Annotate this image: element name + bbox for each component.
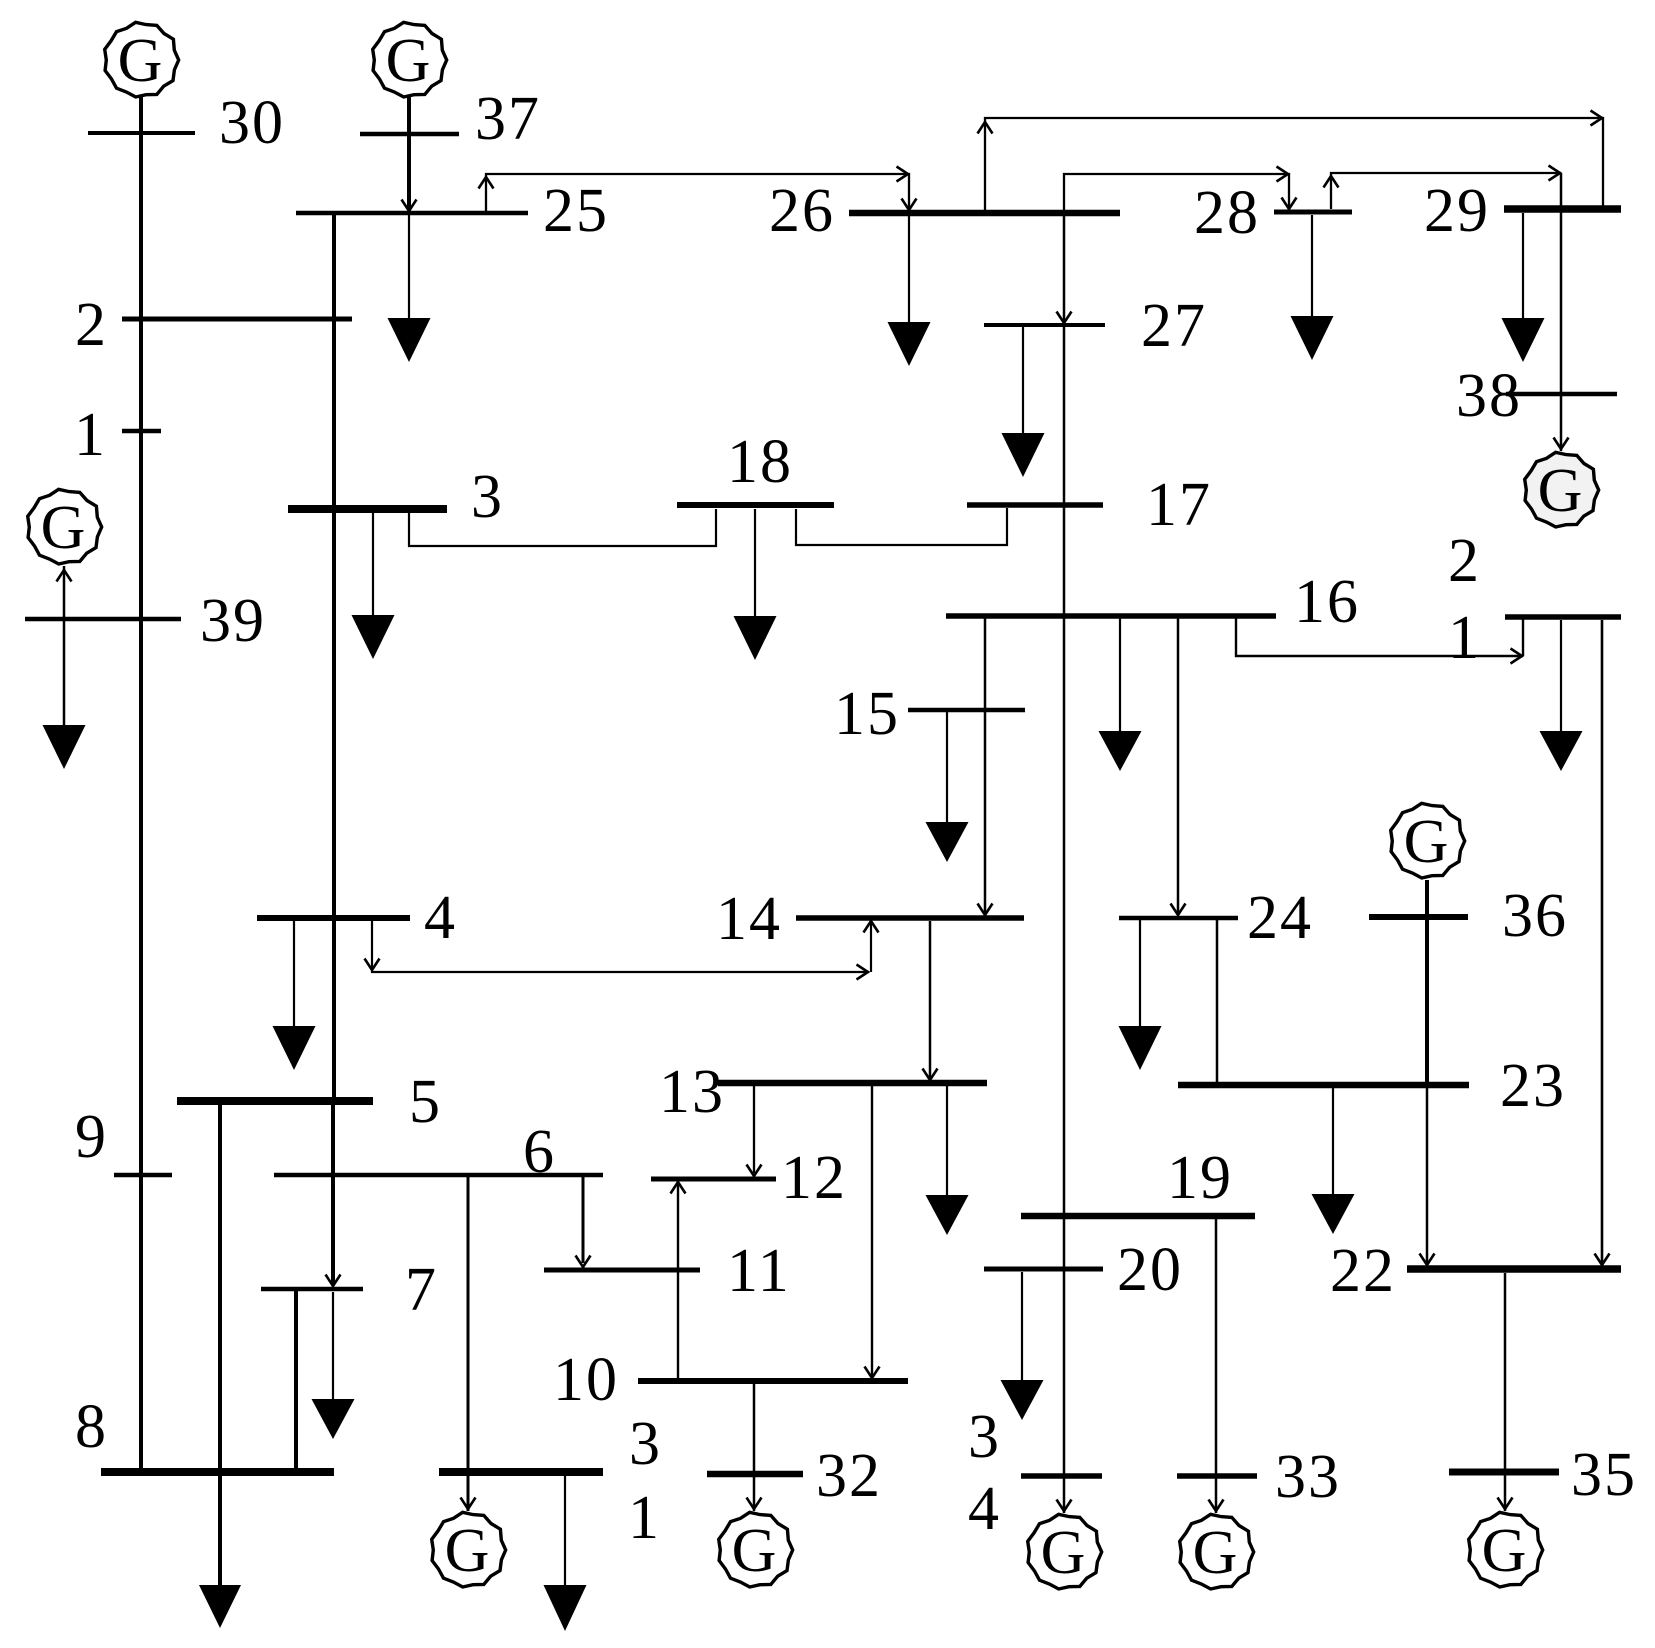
load arrow bus 3 bbox=[352, 615, 395, 659]
svg-text:3: 3 bbox=[471, 463, 504, 531]
arrowhead down into G38 bbox=[1554, 438, 1569, 450]
wire: line 4-14 bbox=[372, 921, 869, 972]
arrowhead down at bus 13 bbox=[923, 1069, 938, 1081]
svg-text:G: G bbox=[41, 494, 88, 562]
bus 9 bbox=[114, 1173, 172, 1178]
svg-text:3: 3 bbox=[968, 1403, 1001, 1471]
bus 34 bbox=[1021, 1473, 1102, 1479]
svg-text:G: G bbox=[732, 1517, 779, 1585]
load arrow bus 7 bbox=[312, 1399, 355, 1439]
svg-text:7: 7 bbox=[405, 1256, 438, 1324]
wire: line 28-29 bbox=[1331, 173, 1561, 209]
generator G at bus 39 bbox=[28, 489, 102, 564]
wire: 26-27-17-16-19-20-34 vertical bbox=[1063, 216, 1066, 1513]
wire: line 18-17 bbox=[796, 508, 1007, 545]
bus 18 bbox=[677, 502, 834, 508]
wire: line 26-29 bbox=[985, 118, 1603, 211]
bus 28 bbox=[1274, 210, 1352, 215]
arrowhead down at bus 25 bbox=[402, 200, 417, 212]
load arrow bus 24 bbox=[1119, 1026, 1162, 1070]
arrowhead down at bus 28 bbox=[1282, 198, 1297, 210]
bus 31 bbox=[439, 1468, 603, 1476]
svg-text:G: G bbox=[1482, 1517, 1529, 1585]
wire: 5-6-7 vertical bbox=[331, 1104, 335, 1284]
bus 25 bbox=[296, 211, 528, 216]
wire: load stem bus 23 bbox=[1332, 1088, 1334, 1194]
wire: load stem bus 16 bbox=[1119, 618, 1121, 731]
bus 20 bbox=[984, 1267, 1103, 1272]
load arrow bus 25 bbox=[388, 318, 431, 362]
bus 24 bbox=[1119, 916, 1238, 921]
wire: line 21-22 bbox=[1601, 620, 1604, 1265]
svg-text:18: 18 bbox=[727, 428, 793, 496]
wire: load stem bus 24 bbox=[1139, 920, 1141, 1026]
arrowhead right on 25-26 bbox=[897, 167, 909, 182]
load arrow bus 27 bbox=[1002, 433, 1045, 477]
wire: load stem bus 27 bbox=[1022, 327, 1024, 433]
arrowhead down at bus 12 bbox=[747, 1165, 762, 1177]
generator G at bus 34 bbox=[1028, 1514, 1102, 1589]
bus 33 bbox=[1177, 1473, 1257, 1479]
wire: line 7-8 bbox=[294, 1291, 298, 1469]
bus 2 bbox=[122, 317, 352, 322]
svg-text:G: G bbox=[386, 27, 433, 95]
wire: load stem bus 4 bbox=[293, 921, 295, 1026]
arrowhead down at bus 27 bbox=[1057, 312, 1072, 324]
arrowhead down into G32 bbox=[747, 1498, 762, 1510]
bus 38 bbox=[1506, 392, 1617, 397]
svg-text:23: 23 bbox=[1500, 1052, 1566, 1120]
bus 1 bbox=[122, 429, 161, 434]
svg-text:17: 17 bbox=[1146, 471, 1212, 539]
wire: load stem bus 18 bbox=[754, 509, 756, 616]
bus 16 bbox=[946, 613, 1276, 619]
bus 35 bbox=[1449, 1469, 1559, 1476]
bus 7 bbox=[261, 1287, 363, 1292]
bus 21 bbox=[1505, 614, 1621, 620]
bus 13 bbox=[718, 1080, 987, 1087]
arrowhead down at bus 22 right bbox=[1595, 1254, 1610, 1266]
arrowhead down into G31 bbox=[461, 1498, 476, 1510]
wire: line 25-26 bbox=[486, 174, 909, 211]
generator G at bus 30 bbox=[105, 22, 179, 97]
wire: 22-35-G35 vertical bbox=[1504, 1273, 1507, 1511]
arrowhead down at bus 26 bbox=[902, 199, 917, 211]
svg-text:38: 38 bbox=[1456, 362, 1522, 430]
svg-text:32: 32 bbox=[816, 1442, 882, 1510]
load arrow bus 29 bbox=[1502, 318, 1545, 362]
bus 36 bbox=[1369, 914, 1468, 920]
bus 5 bbox=[177, 1097, 373, 1105]
generator G at bus 31 bbox=[432, 1512, 506, 1587]
bus 27 bbox=[984, 323, 1105, 327]
wire: load stem bus 15 bbox=[946, 712, 948, 822]
bus 19 bbox=[1021, 1213, 1255, 1220]
svg-text:36: 36 bbox=[1502, 882, 1568, 950]
arrowhead right on 4-14 bbox=[857, 965, 869, 980]
arrowhead up into G39 bbox=[57, 570, 72, 582]
svg-text:1: 1 bbox=[74, 401, 107, 469]
wire: 5-8 vertical and load stem bus 8 bbox=[218, 1104, 222, 1585]
load arrow bus 28 bbox=[1291, 316, 1334, 360]
bus 32 bbox=[707, 1471, 803, 1478]
generator G at bus 37 bbox=[373, 22, 447, 97]
svg-text:39: 39 bbox=[200, 587, 266, 655]
load arrow bus 31 bbox=[544, 1585, 587, 1631]
svg-text:11: 11 bbox=[727, 1237, 791, 1305]
wire: G37-37-25 vertical bbox=[407, 97, 411, 213]
generator G at bus 38 bbox=[1525, 452, 1599, 527]
wire: line 6-11 bbox=[582, 1177, 585, 1263]
wire: line 14-13 bbox=[929, 921, 932, 1078]
svg-text:4: 4 bbox=[968, 1475, 1001, 1543]
wire: line 16-21 bbox=[1236, 618, 1523, 656]
svg-text:30: 30 bbox=[219, 89, 285, 157]
wire: line 13-10 bbox=[871, 1086, 873, 1377]
arrowhead right on 26-29 bbox=[1591, 111, 1603, 126]
arrowhead up on 28-29 bend bbox=[1324, 176, 1339, 188]
arrowhead down into G35 bbox=[1498, 1498, 1513, 1510]
svg-text:G: G bbox=[1041, 1519, 1088, 1587]
svg-text:33: 33 bbox=[1275, 1443, 1341, 1511]
wire: line 13-12 bbox=[753, 1086, 755, 1173]
wire: stub bus 21 to 16-21 line bbox=[1522, 619, 1524, 656]
wire: 12-11-10 vertical bbox=[677, 1182, 679, 1378]
svg-text:G: G bbox=[1538, 457, 1585, 525]
svg-text:28: 28 bbox=[1194, 179, 1260, 247]
generator G at bus 33 bbox=[1180, 1514, 1254, 1589]
arrowhead down at bus 22 left bbox=[1420, 1254, 1435, 1266]
wire: load stem bus 26 bbox=[908, 216, 910, 322]
arrowhead up at bus 14 bbox=[864, 921, 879, 933]
wire: line 26-28 bbox=[1064, 174, 1289, 211]
wire: line 3-18 bbox=[409, 509, 716, 546]
bus 10 bbox=[638, 1378, 908, 1384]
load arrow bus 18 bbox=[734, 616, 777, 660]
svg-text:2: 2 bbox=[1448, 527, 1481, 595]
svg-text:G: G bbox=[1193, 1519, 1240, 1587]
wire: line 23-22 bbox=[1426, 1088, 1429, 1264]
bus 6 bbox=[274, 1173, 603, 1178]
svg-text:1: 1 bbox=[628, 1484, 661, 1552]
svg-text:37: 37 bbox=[475, 85, 541, 153]
svg-text:8: 8 bbox=[75, 1393, 108, 1461]
arrowhead right on 26-28 bbox=[1277, 167, 1289, 182]
arrowhead right on 16-21 bbox=[1511, 649, 1523, 664]
svg-text:10: 10 bbox=[553, 1346, 619, 1414]
load arrow bus 20 bbox=[1001, 1380, 1044, 1420]
wire: line 16-24 bbox=[1177, 618, 1180, 914]
arrowhead down at bus 14 bbox=[978, 904, 993, 916]
load arrow bus 4 bbox=[273, 1026, 316, 1070]
svg-text:15: 15 bbox=[834, 680, 900, 748]
wire: G30-30-2-1-39-9-8 vertical bbox=[139, 97, 143, 1469]
bus 30 bbox=[88, 131, 195, 135]
wire: G36-36-23 vertical bbox=[1425, 880, 1429, 1082]
wire: load stem bus 20 bbox=[1021, 1272, 1023, 1380]
arrowhead down into G34 bbox=[1057, 1500, 1072, 1512]
svg-text:24: 24 bbox=[1247, 884, 1313, 952]
svg-text:35: 35 bbox=[1571, 1441, 1637, 1509]
wire: load stem bus 25 bbox=[408, 215, 410, 318]
svg-text:G: G bbox=[118, 27, 165, 95]
arrowhead down at bus 7 bbox=[326, 1275, 341, 1287]
wire: load stem bus 31 bbox=[564, 1476, 566, 1585]
wire: load stem bus 7 bbox=[332, 1292, 334, 1399]
bus 14 bbox=[796, 915, 1024, 921]
svg-text:25: 25 bbox=[543, 177, 609, 245]
bus 3 bbox=[288, 505, 447, 513]
load arrow bus 23 bbox=[1312, 1194, 1355, 1234]
svg-text:9: 9 bbox=[75, 1103, 108, 1171]
bus 37 bbox=[360, 132, 459, 137]
bus 17 bbox=[967, 502, 1103, 508]
wire: load stem bus 3 bbox=[372, 513, 374, 615]
svg-text:27: 27 bbox=[1141, 292, 1207, 360]
load arrow bus 8 bbox=[199, 1585, 241, 1628]
svg-text:26: 26 bbox=[769, 177, 835, 245]
arrowhead down into G33 bbox=[1209, 1500, 1224, 1512]
svg-text:13: 13 bbox=[659, 1058, 725, 1126]
bus 39 bbox=[25, 617, 181, 622]
wire: load stem bus 29 bbox=[1522, 213, 1524, 318]
bus 22 bbox=[1407, 1265, 1621, 1273]
arrowhead right on 28-29 bbox=[1549, 166, 1561, 181]
arrowhead down at bus 10 bbox=[865, 1367, 880, 1379]
arrowhead down at bus 11 bbox=[576, 1256, 591, 1268]
svg-text:20: 20 bbox=[1117, 1236, 1183, 1304]
bus 23 bbox=[1178, 1082, 1469, 1089]
wire: 10-32-G32 vertical bbox=[753, 1384, 756, 1511]
arrowhead up on 26-29 bend bbox=[978, 122, 993, 134]
generator G at bus 36 bbox=[1391, 803, 1465, 878]
svg-text:12: 12 bbox=[781, 1144, 847, 1212]
wire: 25-2-3-4-5 vertical bbox=[332, 213, 336, 1101]
wire: 19-33-G33 vertical bbox=[1215, 1219, 1218, 1513]
arrowhead up at bus 12 bbox=[671, 1182, 686, 1194]
svg-text:4: 4 bbox=[424, 884, 457, 952]
svg-text:29: 29 bbox=[1424, 177, 1490, 245]
bus 8 bbox=[101, 1468, 334, 1476]
bus 11 bbox=[544, 1268, 700, 1273]
bus 29 bbox=[1504, 205, 1621, 213]
wire: 6-31-G31 vertical bbox=[467, 1177, 470, 1511]
wire: stub 4-14 up to bus 14 bbox=[870, 921, 872, 972]
svg-text:6: 6 bbox=[523, 1118, 556, 1186]
wire: load stem bus 28 bbox=[1311, 215, 1313, 316]
load arrow bus 39 bbox=[43, 725, 86, 769]
load arrow bus 15 bbox=[926, 822, 969, 862]
svg-text:5: 5 bbox=[409, 1068, 442, 1136]
wire: line 24-23 bbox=[1216, 920, 1219, 1082]
generator G at bus 32 bbox=[719, 1512, 793, 1587]
arrowhead down at bus 24 bbox=[1171, 904, 1186, 916]
arrowhead up on 25-26 bend bbox=[479, 177, 494, 189]
bus 26 bbox=[849, 210, 1120, 217]
wire: bus 39 to G39 and load bbox=[63, 566, 66, 725]
svg-text:G: G bbox=[1404, 808, 1451, 876]
svg-text:14: 14 bbox=[716, 885, 782, 953]
svg-text:G: G bbox=[445, 1517, 492, 1585]
svg-text:3: 3 bbox=[629, 1410, 662, 1478]
svg-text:2: 2 bbox=[75, 291, 108, 359]
bus 15 bbox=[908, 708, 1025, 713]
svg-text:22: 22 bbox=[1330, 1237, 1396, 1305]
bus 4 bbox=[257, 915, 410, 921]
wire: load stem bus 21 bbox=[1560, 620, 1562, 731]
wire: 28-29-38-G38 vertical bbox=[1560, 173, 1563, 451]
load arrow bus 13 bbox=[926, 1195, 969, 1235]
load arrow bus 21 bbox=[1540, 731, 1583, 771]
wire: load stem bus 13 bbox=[946, 1086, 948, 1195]
arrowhead down on 4-14 bend bbox=[365, 959, 380, 971]
load arrow bus 26 bbox=[888, 322, 931, 366]
svg-text:19: 19 bbox=[1167, 1144, 1233, 1212]
generator G at bus 35 bbox=[1469, 1512, 1543, 1587]
load arrow bus 16 bbox=[1099, 731, 1142, 771]
wire: 16-15-14 vertical bbox=[984, 618, 987, 914]
svg-text:1: 1 bbox=[1448, 604, 1481, 672]
bus 12 bbox=[651, 1177, 776, 1182]
svg-text:16: 16 bbox=[1294, 568, 1360, 636]
